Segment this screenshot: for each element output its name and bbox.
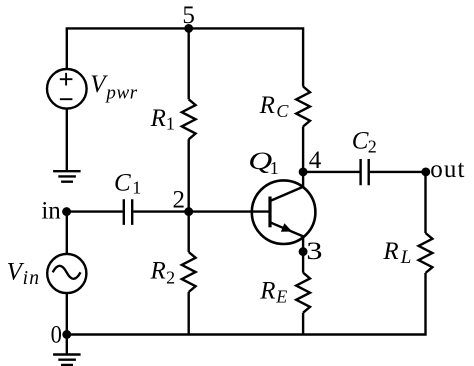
svg-text:2: 2 [166,267,175,287]
svg-text:R: R [150,105,166,132]
svg-text:1: 1 [132,177,141,197]
svg-text:1: 1 [270,158,279,178]
svg-text:Q: Q [248,148,272,175]
svg-text:5: 5 [182,2,195,29]
svg-text:1: 1 [166,113,175,133]
svg-text:out: out [430,156,465,183]
svg-text:0: 0 [51,322,62,349]
svg-text:E: E [275,287,287,307]
svg-text:R: R [259,92,275,119]
svg-text:R: R [259,278,275,305]
svg-text:C: C [352,128,369,155]
svg-text:L: L [400,247,412,268]
svg-text:R: R [382,238,398,265]
svg-text:R: R [150,257,166,284]
svg-text:pwr: pwr [104,83,137,104]
svg-text:4: 4 [309,147,322,174]
svg-text:3: 3 [306,237,322,265]
svg-text:C: C [276,101,289,121]
svg-text:2: 2 [172,186,185,213]
svg-text:2: 2 [368,137,377,157]
svg-text:in: in [23,268,41,289]
svg-text:in: in [41,198,61,225]
svg-text:C: C [114,169,131,196]
